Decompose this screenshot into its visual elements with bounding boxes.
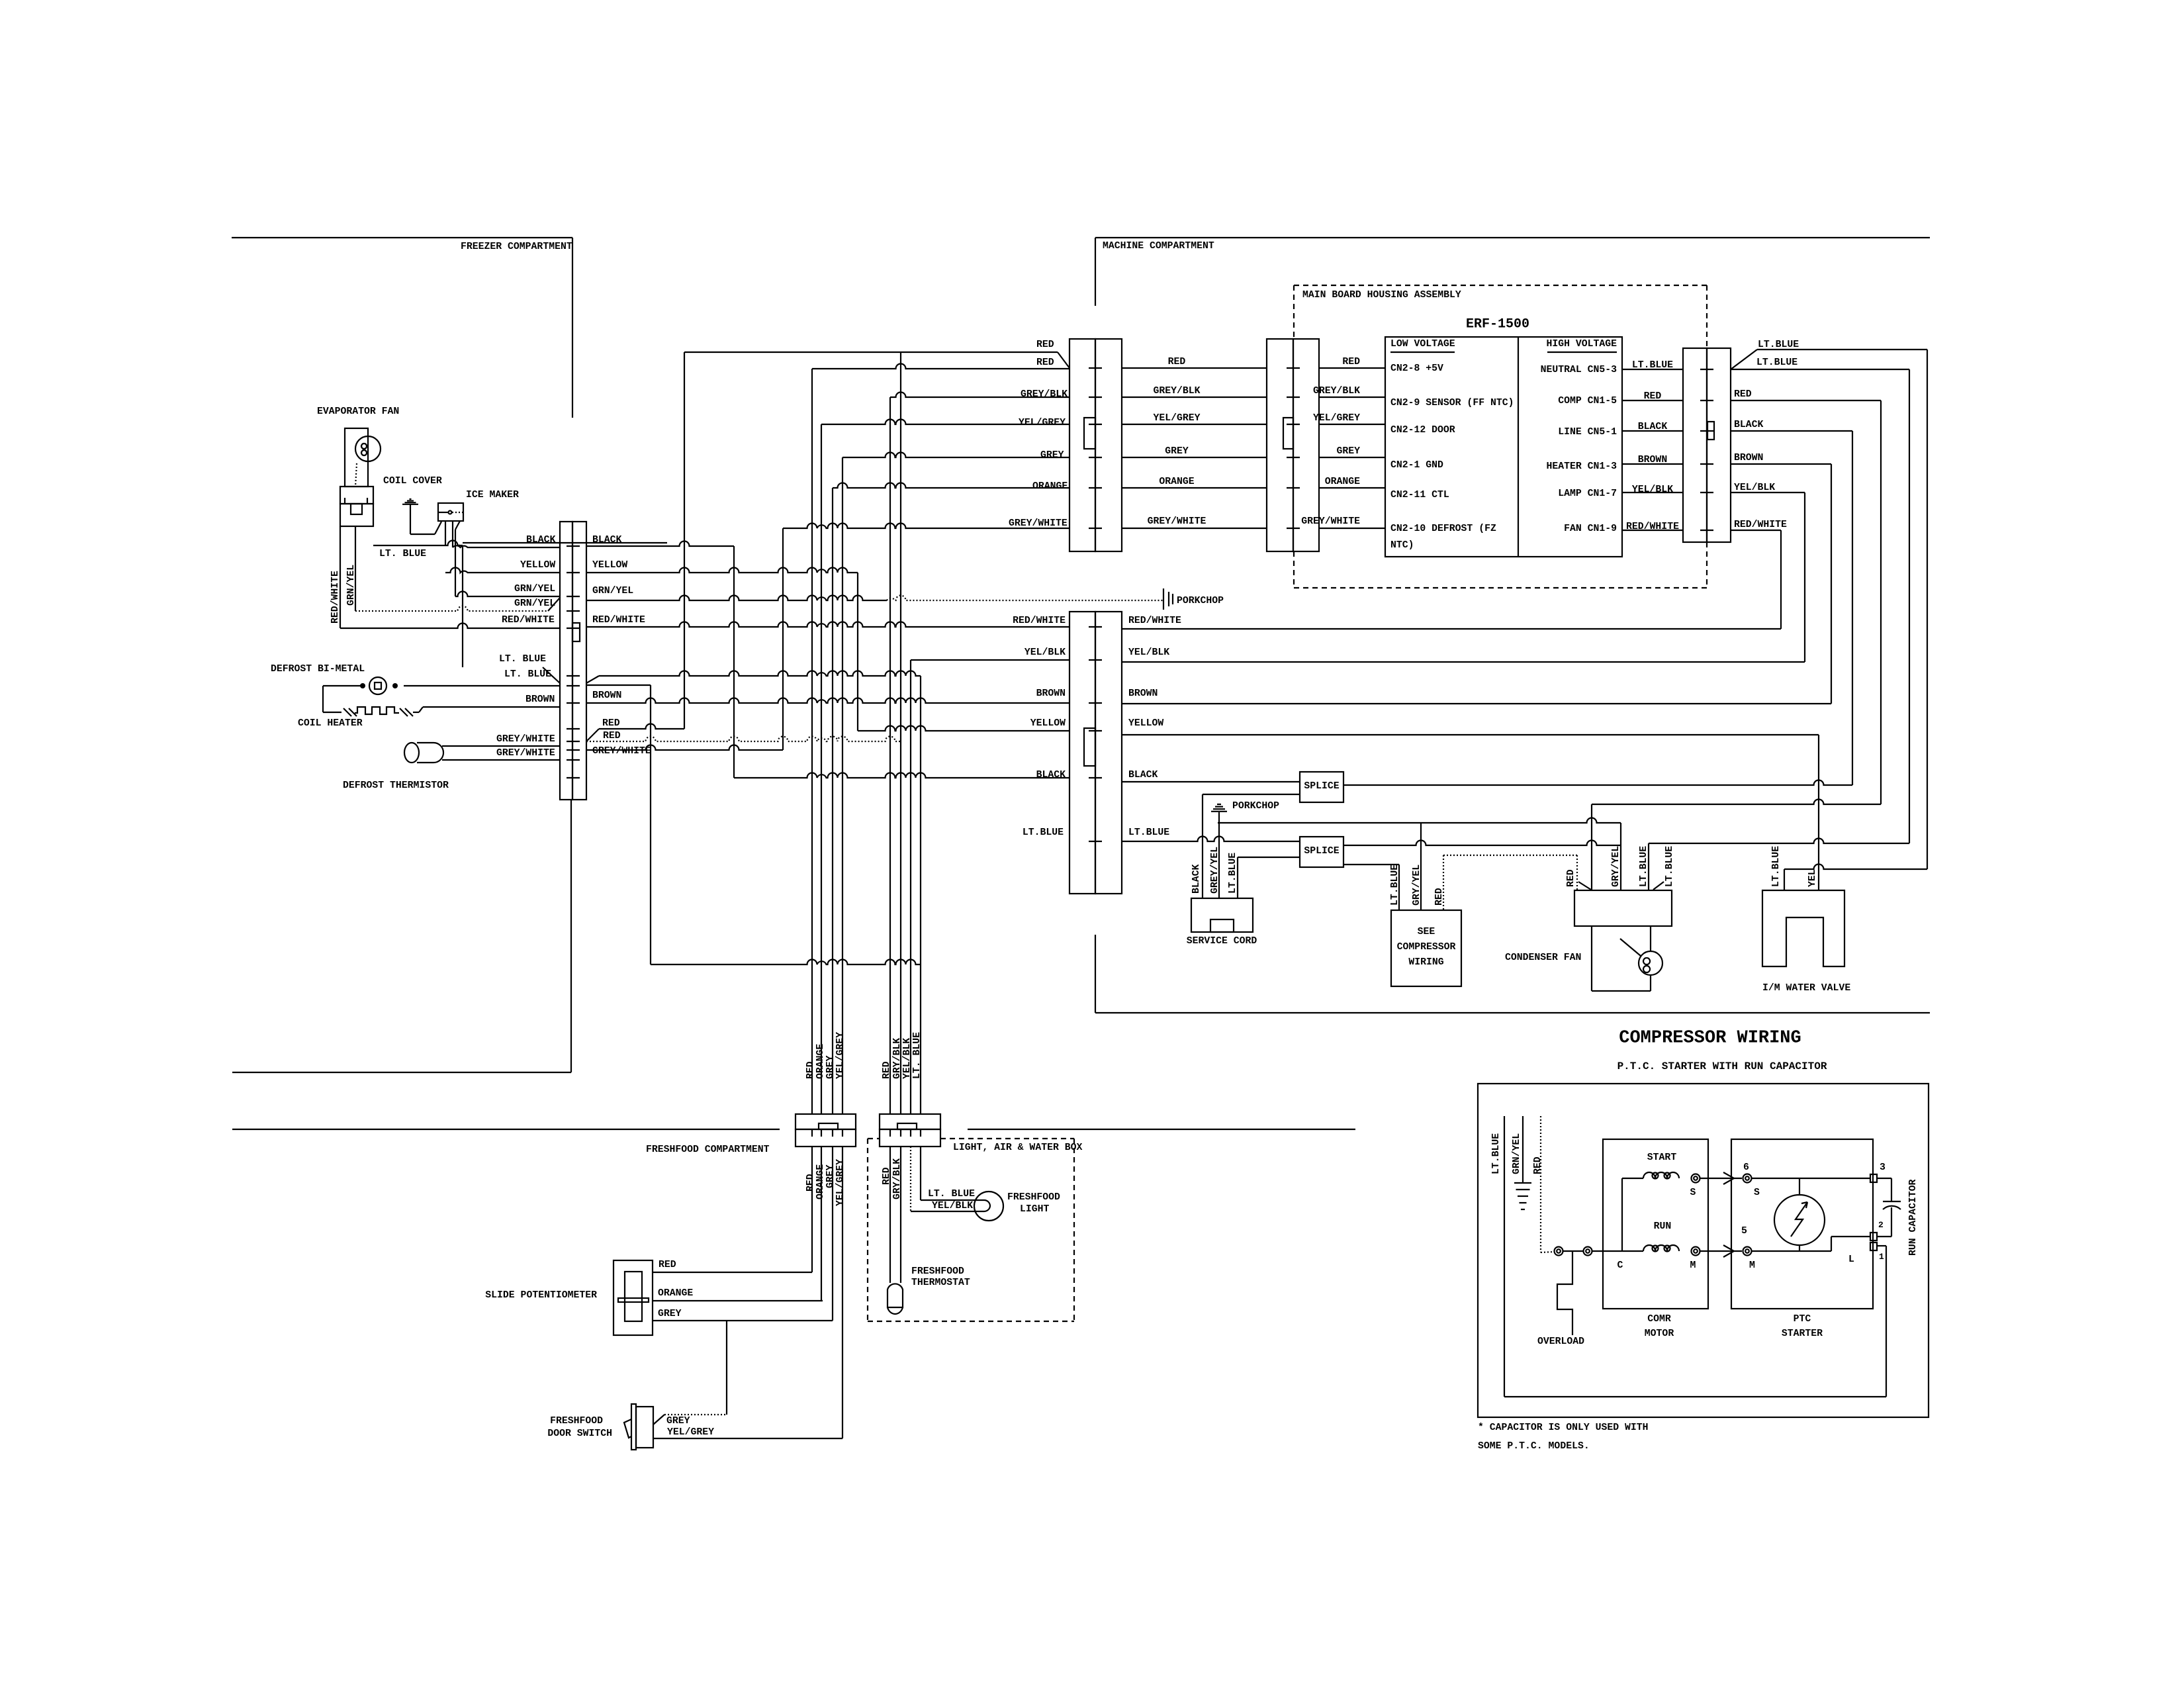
- svg-text:BLACK: BLACK: [1734, 420, 1764, 430]
- svg-text:I/M WATER VALVE: I/M WATER VALVE: [1762, 983, 1850, 994]
- overload element: [1557, 1251, 1572, 1335]
- slide potentiometer: [614, 1260, 653, 1335]
- svg-text:YEL/GREY: YEL/GREY: [835, 1032, 846, 1079]
- svg-text:COMPRESSOR WIRING: COMPRESSOR WIRING: [1619, 1028, 1801, 1048]
- main board housing dashed box: [1294, 285, 1707, 286]
- svg-text:RED: RED: [659, 1260, 676, 1270]
- svg-text:COIL COVER: COIL COVER: [383, 476, 442, 487]
- svg-text:BLACK: BLACK: [592, 535, 622, 545]
- svg-text:BROWN: BROWN: [1128, 688, 1158, 699]
- light air water box dashed: [868, 1138, 880, 1139]
- svg-text:BROWN: BROWN: [1036, 688, 1066, 699]
- see compressor wiring box: [1391, 910, 1461, 986]
- svg-text:BLACK: BLACK: [1191, 864, 1202, 894]
- svg-text:L: L: [1848, 1254, 1854, 1265]
- svg-text:FRESHFOOD: FRESHFOOD: [1007, 1192, 1060, 1203]
- svg-text:LINE CN5-1: LINE CN5-1: [1558, 427, 1617, 438]
- svg-text:LT.BLUE: LT.BLUE: [1771, 846, 1782, 887]
- svg-text:YEL/BLK: YEL/BLK: [1632, 485, 1673, 495]
- svg-text:FREEZER COMPARTMENT: FREEZER COMPARTMENT: [461, 242, 572, 252]
- machine compartment border: [1095, 237, 1930, 238]
- ice maker wires: [455, 521, 460, 530]
- porkchop ground 1: [1163, 588, 1164, 610]
- svg-text:FRESHFOOD: FRESHFOOD: [911, 1266, 964, 1277]
- svg-text:YEL/GREY: YEL/GREY: [667, 1427, 714, 1438]
- svg-text:LT.BLUE: LT.BLUE: [1228, 853, 1238, 894]
- svg-text:FAN CN1-9: FAN CN1-9: [1564, 524, 1617, 534]
- svg-text:COIL HEATER: COIL HEATER: [298, 718, 363, 729]
- evaporator fan housing: [340, 487, 373, 504]
- svg-text:5: 5: [1741, 1226, 1747, 1237]
- svg-text:RED: RED: [1533, 1156, 1543, 1174]
- svg-text:GREY: GREY: [1040, 450, 1064, 461]
- wire M to PTC: [1700, 1250, 1742, 1252]
- wire S to PTC: [1700, 1178, 1742, 1179]
- svg-text:2: 2: [1878, 1220, 1884, 1230]
- terminal 2: [1870, 1233, 1877, 1241]
- svg-text:RED: RED: [805, 1061, 816, 1079]
- condenser fan box: [1574, 890, 1672, 926]
- svg-text:6: 6: [1743, 1162, 1749, 1173]
- svg-text:RED/WHITE: RED/WHITE: [1128, 616, 1181, 626]
- svg-text:RED/WHITE: RED/WHITE: [502, 615, 555, 626]
- svg-text:S: S: [1754, 1188, 1760, 1198]
- PTC starter box: [1731, 1139, 1873, 1309]
- svg-text:M: M: [1749, 1260, 1755, 1271]
- svg-text:RED/WHITE: RED/WHITE: [330, 571, 341, 624]
- svg-text:GREY/WHITE: GREY/WHITE: [1301, 516, 1360, 527]
- svg-text:M: M: [1690, 1260, 1696, 1271]
- svg-text:YEL/BLK: YEL/BLK: [932, 1201, 973, 1211]
- connector C1 freezer wall: [560, 522, 572, 800]
- svg-text:MOTOR: MOTOR: [1645, 1329, 1674, 1339]
- svg-text:S: S: [1690, 1188, 1696, 1198]
- svg-text:LT.BLUE: LT.BLUE: [1023, 827, 1064, 838]
- svg-text:MAIN BOARD HOUSING ASSEMBLY: MAIN BOARD HOUSING ASSEMBLY: [1302, 290, 1461, 301]
- svg-text:RED: RED: [1036, 340, 1054, 350]
- svg-text:LIGHT, AIR & WATER BOX: LIGHT, AIR & WATER BOX: [953, 1143, 1082, 1153]
- svg-text:ORANGE: ORANGE: [1032, 481, 1068, 492]
- svg-text:PTC: PTC: [1794, 1314, 1811, 1325]
- wire GREY pot to switch: [653, 1415, 664, 1425]
- svg-text:RED: RED: [603, 731, 621, 741]
- svg-text:YEL/GREY: YEL/GREY: [835, 1159, 846, 1206]
- svg-text:YEL/BLK: YEL/BLK: [1024, 647, 1066, 658]
- svg-text:GREY/BLK: GREY/BLK: [1021, 389, 1068, 400]
- svg-text:NTC): NTC): [1390, 540, 1414, 551]
- svg-text:LT.BLUE: LT.BLUE: [1639, 846, 1649, 887]
- svg-text:ORANGE: ORANGE: [658, 1288, 693, 1299]
- svg-text:YELLOW: YELLOW: [1030, 718, 1066, 729]
- svg-text:ICE MAKER: ICE MAKER: [466, 490, 519, 500]
- svg-text:CN2-1 GND: CN2-1 GND: [1390, 460, 1443, 471]
- terminal 1: [1870, 1243, 1877, 1250]
- svg-text:GRN/YEL: GRN/YEL: [514, 598, 555, 609]
- svg-text:DEFROST THERMISTOR: DEFROST THERMISTOR: [343, 780, 449, 791]
- svg-text:WIRING: WIRING: [1408, 957, 1443, 968]
- coil cover ground symbol: [402, 504, 418, 505]
- svg-text:* CAPACITOR IS ONLY USED WITH: * CAPACITOR IS ONLY USED WITH: [1478, 1423, 1649, 1433]
- svg-text:RED/WHITE: RED/WHITE: [1734, 520, 1787, 530]
- svg-text:LOW VOLTAGE: LOW VOLTAGE: [1390, 339, 1455, 350]
- svg-text:BLACK: BLACK: [1128, 770, 1158, 780]
- svg-text:LT. BLUE: LT. BLUE: [379, 549, 426, 559]
- freshfood connector FF1: [796, 1114, 856, 1129]
- svg-text:NEUTRAL CN5-3: NEUTRAL CN5-3: [1541, 365, 1617, 375]
- connector C4 board outlet: [1683, 348, 1707, 542]
- svg-text:SEE: SEE: [1418, 927, 1435, 937]
- svg-text:GRN/YEL: GRN/YEL: [1512, 1133, 1522, 1174]
- svg-text:GREY: GREY: [1165, 446, 1189, 457]
- svg-text:COMP CN1-5: COMP CN1-5: [1558, 396, 1617, 406]
- svg-text:YELLOW: YELLOW: [1128, 718, 1163, 729]
- svg-text:HIGH VOLTAGE: HIGH VOLTAGE: [1546, 339, 1617, 350]
- PTC thermistor: [1774, 1195, 1825, 1245]
- freezer compartment border: [232, 237, 572, 238]
- svg-text:ORANGE: ORANGE: [1159, 477, 1194, 487]
- svg-text:CN2-11 CTL: CN2-11 CTL: [1390, 490, 1449, 500]
- svg-text:GREY/WHITE: GREY/WHITE: [592, 746, 651, 757]
- svg-text:SPLICE: SPLICE: [1304, 846, 1339, 857]
- svg-text:START: START: [1647, 1152, 1677, 1163]
- connector C5 board inlet: [1267, 339, 1293, 551]
- svg-text:RUN CAPACITOR: RUN CAPACITOR: [1908, 1179, 1919, 1256]
- svg-text:LT. BLUE: LT. BLUE: [499, 654, 546, 665]
- svg-text:RED: RED: [602, 718, 620, 729]
- svg-text:MACHINE COMPARTMENT: MACHINE COMPARTMENT: [1103, 241, 1214, 252]
- svg-text:GREY: GREY: [825, 1164, 836, 1188]
- svg-text:SPLICE: SPLICE: [1304, 781, 1339, 792]
- freshfood connector FF2: [880, 1114, 940, 1129]
- svg-text:RED: RED: [1566, 869, 1576, 887]
- compressor motor box: [1603, 1139, 1708, 1309]
- svg-text:LT.BLUE: LT.BLUE: [1128, 827, 1169, 838]
- svg-text:YEL/GREY: YEL/GREY: [1019, 418, 1066, 428]
- svg-text:HEATER CN1-3: HEATER CN1-3: [1546, 461, 1617, 472]
- svg-text:YELLOW: YELLOW: [592, 560, 627, 571]
- svg-text:GREY/BLK: GREY/BLK: [1313, 386, 1360, 397]
- svg-text:RUN: RUN: [1654, 1221, 1672, 1232]
- svg-text:YELLOW: YELLOW: [520, 560, 555, 571]
- svg-text:RED: RED: [1036, 357, 1054, 368]
- svg-text:GRN/YEL: GRN/YEL: [592, 586, 633, 596]
- svg-text:THERMOSTAT: THERMOSTAT: [911, 1278, 970, 1288]
- svg-text:CN2-10 DEFROST (FZ: CN2-10 DEFROST (FZ: [1390, 524, 1496, 534]
- svg-text:GREY/WHITE: GREY/WHITE: [496, 734, 555, 745]
- svg-text:GRN/YEL: GRN/YEL: [514, 584, 555, 594]
- svg-text:GREY: GREY: [1336, 446, 1360, 457]
- ice maker body: [438, 503, 463, 521]
- svg-text:LT.BLUE: LT.BLUE: [1491, 1133, 1502, 1174]
- svg-text:LT.BLUE: LT.BLUE: [1756, 357, 1797, 368]
- freshfood door switch: [631, 1404, 636, 1450]
- terminal 3: [1870, 1174, 1877, 1182]
- svg-text:P.T.C. STARTER WITH RUN CAPACI: P.T.C. STARTER WITH RUN CAPACITOR: [1617, 1060, 1827, 1072]
- svg-text:GRY/YEL: GRY/YEL: [1611, 846, 1621, 887]
- svg-text:GREY: GREY: [658, 1309, 682, 1319]
- svg-text:YEL/GREY: YEL/GREY: [1153, 413, 1200, 424]
- compressor panel frame: [1478, 1084, 1929, 1417]
- overload contacts: [1555, 1247, 1563, 1256]
- svg-text:GREY: GREY: [666, 1416, 690, 1427]
- svg-text:GREY/WHITE: GREY/WHITE: [496, 748, 555, 759]
- evaporator fan motor: [345, 428, 368, 487]
- service cord: [1191, 898, 1253, 932]
- svg-text:EVAPORATOR FAN: EVAPORATOR FAN: [317, 406, 399, 417]
- svg-text:LAMP CN1-7: LAMP CN1-7: [1558, 489, 1617, 499]
- svg-text:LT. BLUE: LT. BLUE: [504, 669, 551, 680]
- svg-text:RED: RED: [1342, 357, 1360, 367]
- porkchop ground 2: [1211, 811, 1227, 812]
- svg-text:BLACK: BLACK: [1036, 770, 1066, 780]
- svg-text:SERVICE CORD: SERVICE CORD: [1187, 936, 1257, 947]
- svg-text:OVERLOAD: OVERLOAD: [1537, 1336, 1584, 1347]
- svg-text:GREY: GREY: [825, 1055, 836, 1079]
- defrost thermistor: [404, 743, 419, 763]
- svg-text:GREY/BLK: GREY/BLK: [1153, 386, 1200, 397]
- svg-text:C: C: [1617, 1260, 1623, 1271]
- freshfood light: [974, 1192, 1003, 1221]
- svg-text:GREY/WHITE: GREY/WHITE: [1009, 518, 1068, 529]
- I/M water valve: [1762, 890, 1844, 966]
- svg-text:RED: RED: [805, 1174, 816, 1192]
- connector C2 machine wall upper: [1069, 339, 1095, 551]
- svg-text:YEL/BLK: YEL/BLK: [1128, 647, 1169, 658]
- svg-text:BROWN: BROWN: [1734, 453, 1763, 463]
- svg-text:BROWN: BROWN: [592, 690, 621, 701]
- svg-text:STARTER: STARTER: [1782, 1329, 1823, 1339]
- svg-text:ERF-1500: ERF-1500: [1466, 317, 1529, 332]
- svg-text:LIGHT: LIGHT: [1020, 1204, 1050, 1215]
- svg-text:YEL/GREY: YEL/GREY: [1313, 413, 1360, 424]
- svg-text:1: 1: [1879, 1252, 1884, 1262]
- svg-text:FRESHFOOD: FRESHFOOD: [550, 1416, 603, 1427]
- svg-text:CONDENSER FAN: CONDENSER FAN: [1505, 953, 1581, 963]
- svg-text:LT.BLUE: LT.BLUE: [1758, 340, 1799, 350]
- splice 1: [1300, 772, 1343, 802]
- svg-text:COMPRESSOR: COMPRESSOR: [1397, 942, 1456, 953]
- svg-text:SOME P.T.C. MODELS.: SOME P.T.C. MODELS.: [1478, 1441, 1590, 1452]
- svg-text:COMR: COMR: [1647, 1314, 1671, 1325]
- svg-text:BLACK: BLACK: [526, 535, 556, 545]
- svg-text:LT. BLUE: LT. BLUE: [928, 1189, 975, 1199]
- svg-text:DOOR SWITCH: DOOR SWITCH: [547, 1429, 612, 1439]
- svg-text:CN2-12 DOOR: CN2-12 DOOR: [1390, 425, 1455, 436]
- svg-text:CN2-9 SENSOR (FF NTC): CN2-9 SENSOR (FF NTC): [1390, 398, 1514, 408]
- wire LT.BLUE row 1 to bundle2: [586, 676, 599, 683]
- svg-text:GREY/WHITE: GREY/WHITE: [1148, 516, 1206, 527]
- condenser fan motor: [1591, 926, 1592, 991]
- freshfood compartment border: [232, 1129, 780, 1130]
- svg-text:FRESHFOOD COMPARTMENT: FRESHFOOD COMPARTMENT: [646, 1145, 770, 1155]
- svg-text:LT.BLUE: LT.BLUE: [1664, 846, 1675, 887]
- connector C3 machine wall lower: [1069, 612, 1095, 894]
- splice 2: [1300, 837, 1343, 867]
- svg-text:YEL/BLK: YEL/BLK: [1734, 483, 1775, 493]
- svg-text:DEFROST BI-METAL: DEFROST BI-METAL: [271, 664, 365, 675]
- svg-text:3: 3: [1880, 1162, 1886, 1173]
- svg-text:RED/WHITE: RED/WHITE: [1013, 616, 1066, 626]
- freshfood thermostat: [887, 1284, 903, 1307]
- coil heater element: [323, 712, 341, 713]
- svg-text:PORKCHOP: PORKCHOP: [1232, 801, 1279, 812]
- svg-text:RED: RED: [1168, 357, 1186, 367]
- svg-text:CN2-8 +5V: CN2-8 +5V: [1390, 363, 1443, 374]
- defrost bi-metal switch: [404, 685, 560, 686]
- svg-text:YEL: YEL: [1807, 869, 1818, 887]
- svg-text:ORANGE: ORANGE: [1325, 477, 1360, 487]
- svg-text:RED: RED: [1734, 389, 1752, 400]
- svg-text:RED/WHITE: RED/WHITE: [592, 615, 645, 626]
- svg-text:BROWN: BROWN: [525, 694, 555, 705]
- svg-text:PORKCHOP: PORKCHOP: [1177, 596, 1224, 606]
- svg-text:SLIDE POTENTIOMETER: SLIDE POTENTIOMETER: [485, 1290, 597, 1301]
